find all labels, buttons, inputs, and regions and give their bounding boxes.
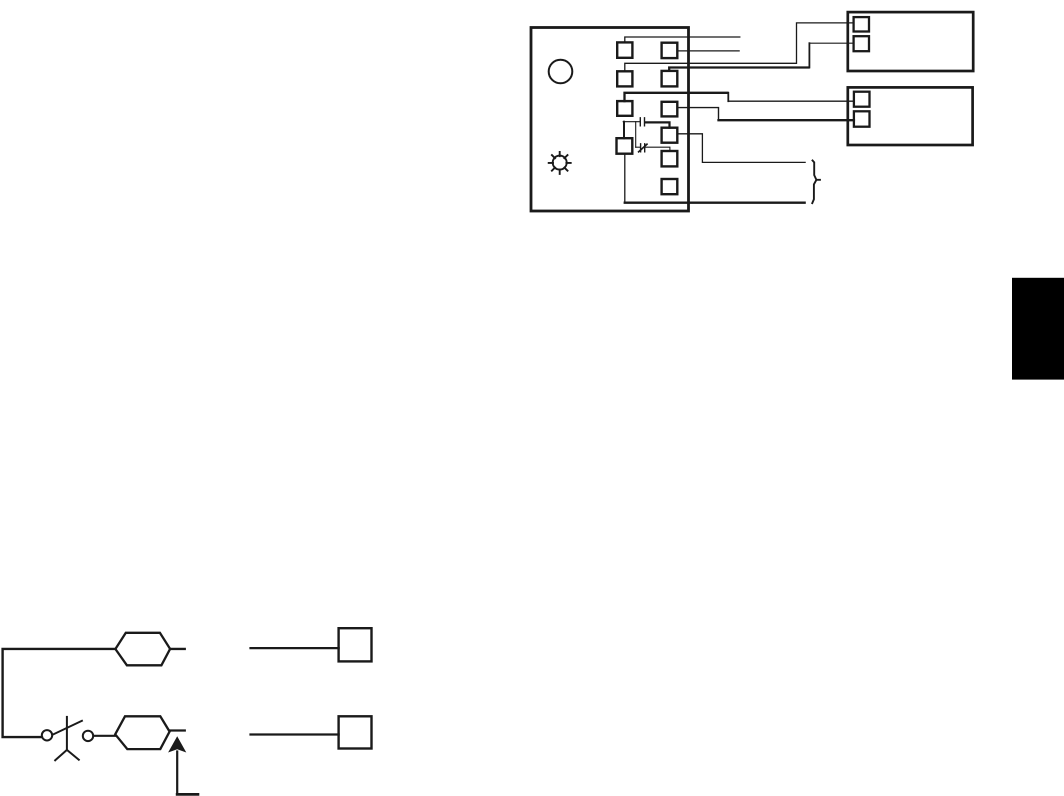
box2 pin 1 bbox=[854, 92, 870, 107]
switch contact circle a bbox=[42, 730, 52, 740]
wire to terminal square B bbox=[251, 733, 339, 735]
box1 pin 2 bbox=[854, 36, 869, 51]
black tab on page edge bbox=[1012, 278, 1064, 380]
terminal R5 bbox=[662, 151, 678, 166]
wire to terminal square A bbox=[251, 647, 339, 649]
switch manual stem bbox=[66, 717, 68, 750]
terminal R4 bbox=[662, 128, 678, 143]
terminal R3 bbox=[662, 102, 678, 117]
terminal L4 bbox=[617, 138, 633, 154]
wire branch to capacitor C2 bbox=[635, 122, 637, 148]
solenoid V2 hexagon bbox=[115, 716, 169, 749]
wire L2 to connector box1 pin1 bbox=[625, 23, 854, 71]
wire L4 top riser bbox=[623, 122, 625, 139]
wire stub right of V2 bbox=[170, 729, 185, 731]
wire R2 to connector box1 pin2 bbox=[669, 68, 808, 71]
terminal square A bbox=[339, 628, 372, 661]
terminal L2 bbox=[617, 71, 632, 86]
terminal R2 bbox=[662, 71, 678, 87]
switch blade bbox=[53, 721, 82, 735]
wire from R1 stub bbox=[677, 50, 739, 52]
arrow pointing at V2 bbox=[176, 752, 178, 794]
indicator circle (buzzer) bbox=[549, 60, 573, 84]
wire C2 to R5 bbox=[645, 147, 670, 151]
terminal R1 bbox=[662, 43, 678, 58]
box1 pin 1 bbox=[854, 17, 869, 31]
terminal R6 bbox=[662, 179, 678, 194]
wire L3 to connector box2 pin1 bbox=[625, 93, 728, 101]
wire into capacitor C2 bbox=[636, 146, 641, 148]
LED lamp symbol bbox=[549, 152, 571, 174]
wire L4 to brace lower bbox=[624, 154, 626, 202]
wire C1 to R4 bbox=[645, 122, 669, 127]
terminal L3 bbox=[617, 101, 632, 116]
control board outline bbox=[531, 28, 689, 212]
wire R4 to brace upper bbox=[677, 134, 805, 163]
arrow foot bbox=[177, 793, 198, 796]
wire into V1 bbox=[3, 649, 185, 737]
switch contact circle b bbox=[83, 731, 93, 741]
wire riser to capacitor C1 bbox=[623, 121, 639, 123]
wire from L1 stub bbox=[625, 37, 740, 42]
box2 pin 2 bbox=[854, 111, 870, 126]
switch manual legs bbox=[55, 750, 79, 760]
connector box 1 bbox=[848, 12, 973, 71]
capacitor C1 bbox=[640, 118, 644, 126]
connector box 2 bbox=[848, 87, 973, 145]
solenoid V1 hexagon bbox=[115, 633, 170, 666]
brace bbox=[812, 160, 821, 204]
terminal L1 bbox=[617, 42, 632, 57]
wire R3 to connector box2 pin2 bbox=[677, 108, 718, 120]
wire switch to V2 bbox=[95, 735, 116, 737]
capacitor C2 (trimmed) bbox=[641, 144, 645, 152]
terminal square B bbox=[339, 716, 372, 748]
